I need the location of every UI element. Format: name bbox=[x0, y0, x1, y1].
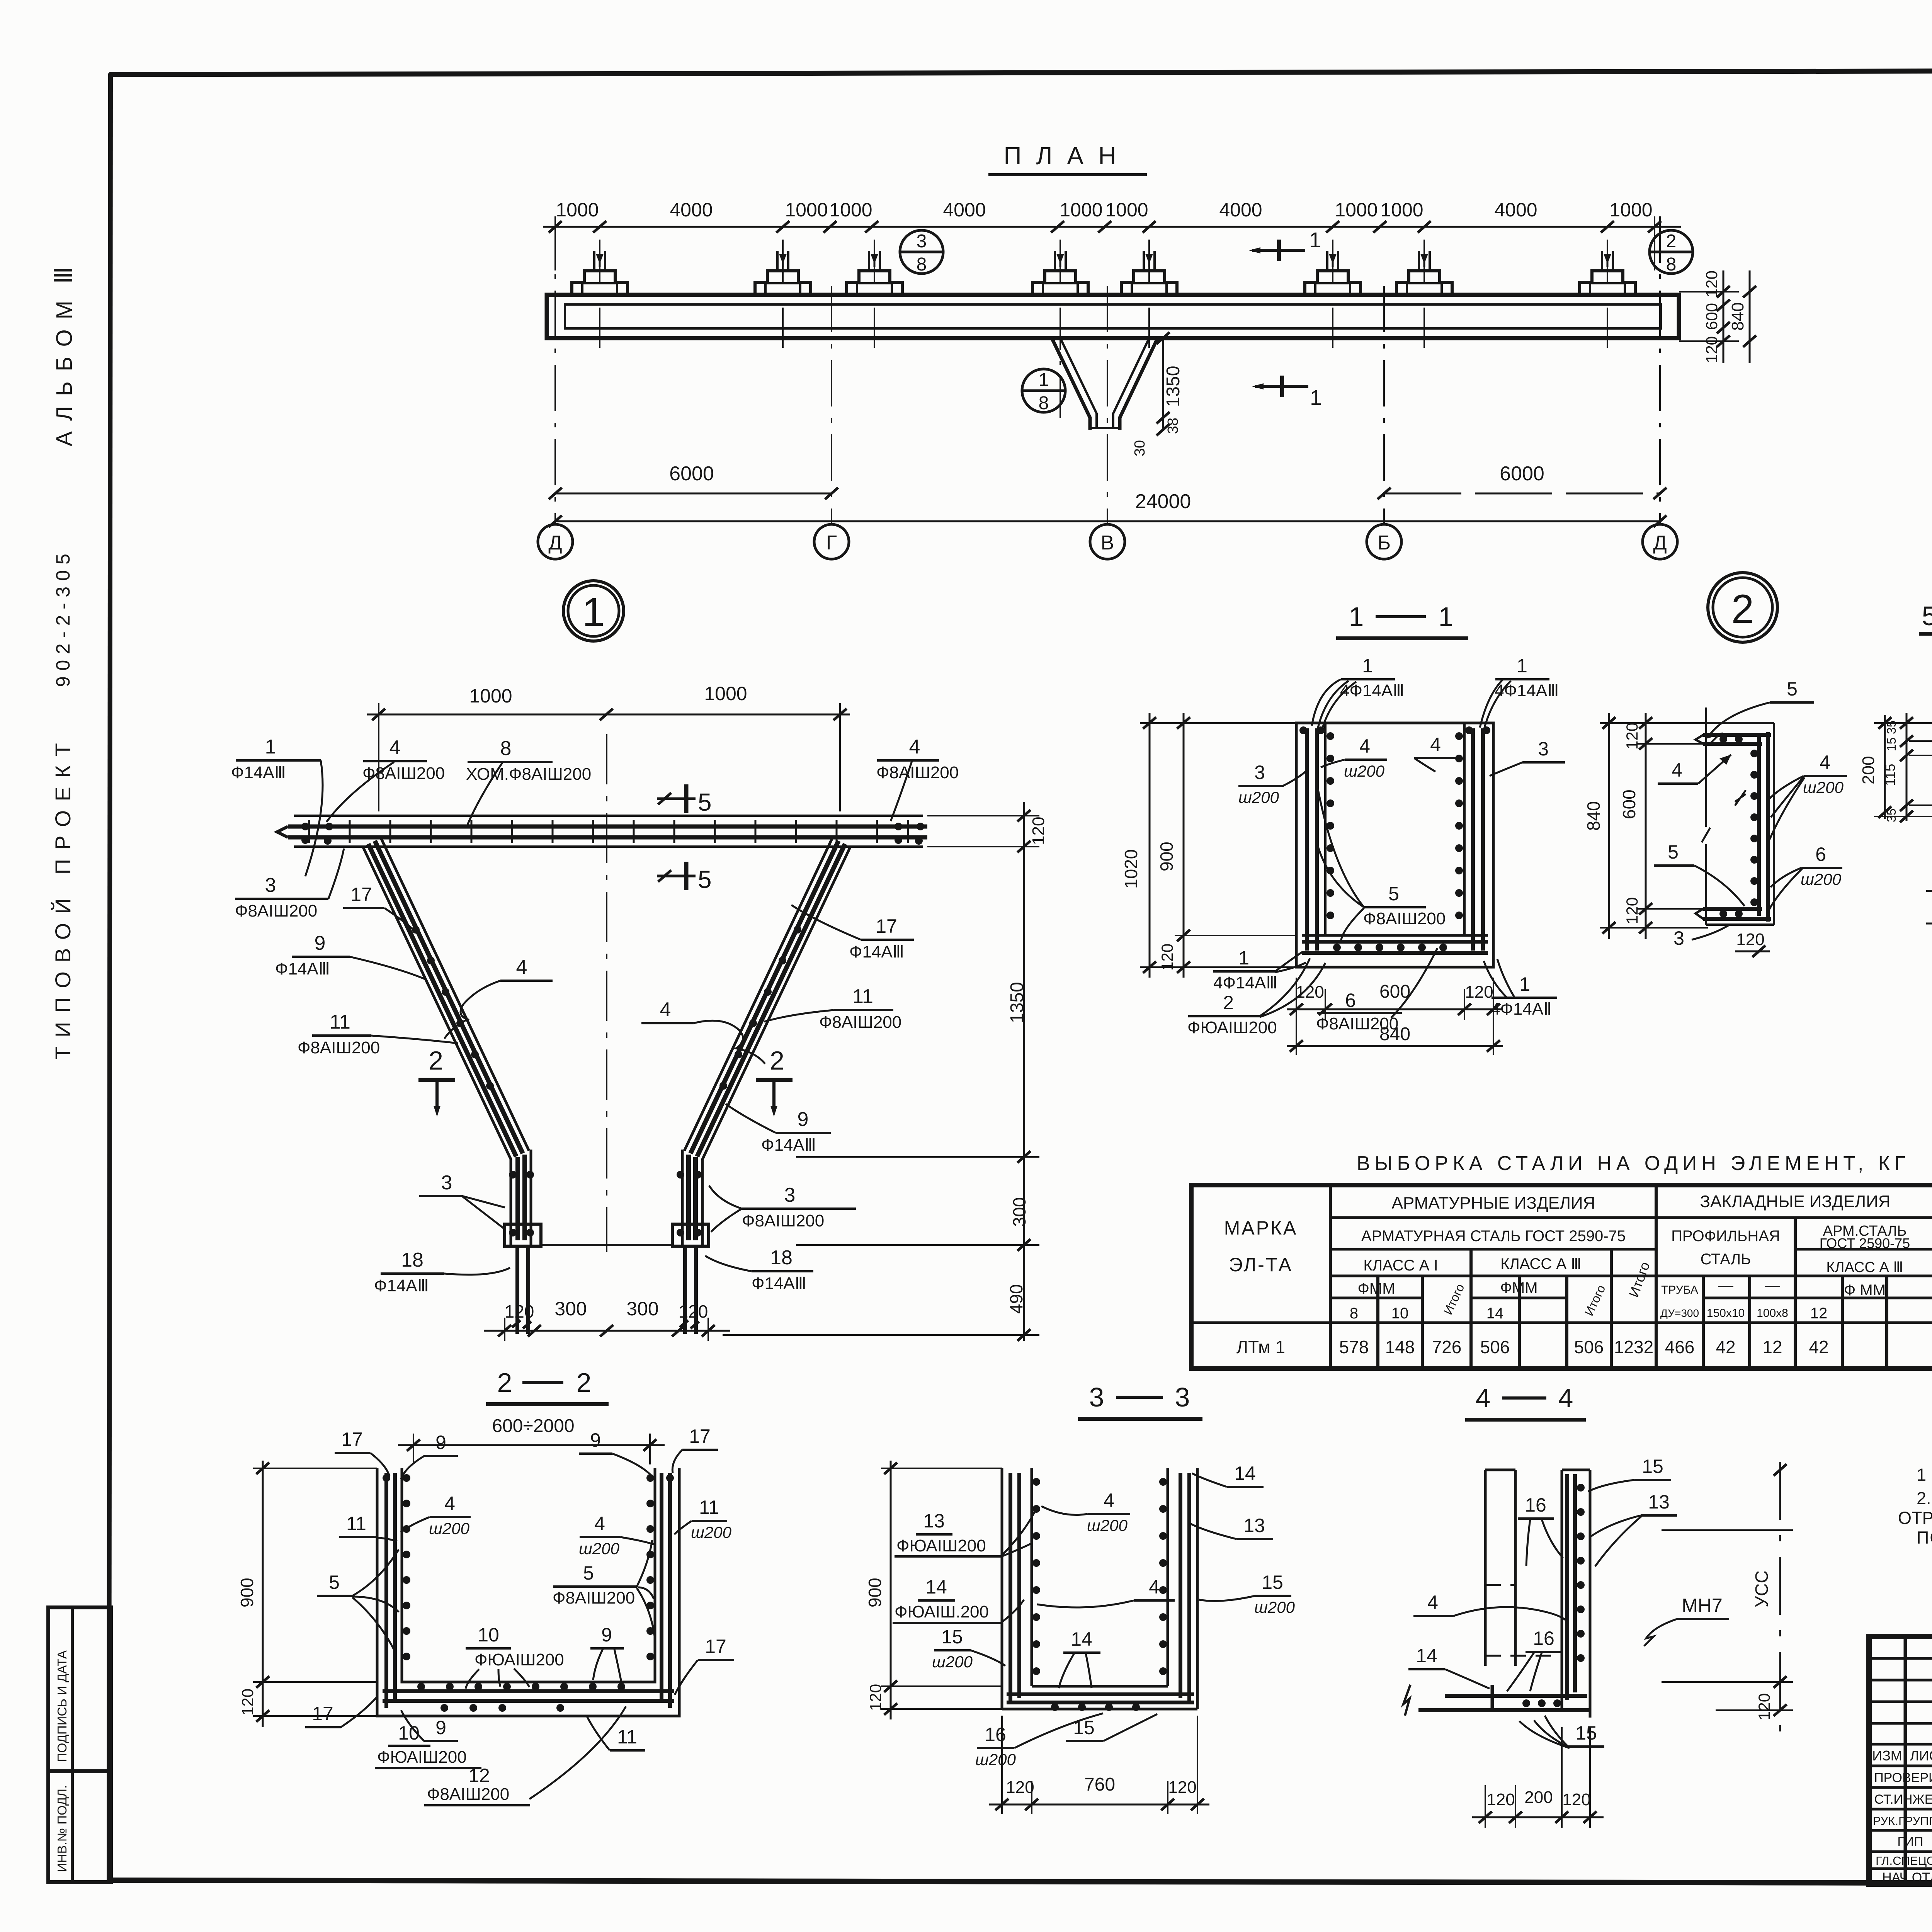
svg-text:24000: 24000 bbox=[1135, 490, 1191, 513]
label 4 mid right bbox=[641, 998, 765, 1064]
svg-text:УСС: УСС bbox=[1752, 1570, 1772, 1607]
svg-text:15: 15 bbox=[1575, 1722, 1597, 1744]
svg-text:2. АРМАТУРА ПОЗ. 1,2,5 ЗАКАЗ: 2. АРМАТУРА ПОЗ. 1,2,5 ЗАКАЗАНА ОБЩЕЙ ДЛ… bbox=[1917, 1488, 1932, 1508]
svg-text:4Ф14АⅢ: 4Ф14АⅢ bbox=[1495, 681, 1559, 700]
svg-text:100х8: 100х8 bbox=[1757, 1307, 1788, 1320]
svg-text:300: 300 bbox=[554, 1298, 587, 1320]
section 1-1 label 3 right bbox=[1490, 738, 1565, 776]
svg-text:12: 12 bbox=[1810, 1305, 1828, 1322]
section 1 left sloped leg bbox=[363, 838, 541, 1246]
svg-text:120: 120 bbox=[1755, 1693, 1773, 1720]
svg-text:4: 4 bbox=[516, 956, 527, 978]
svg-text:120: 120 bbox=[1486, 1790, 1515, 1809]
svg-text:14: 14 bbox=[1234, 1463, 1256, 1484]
title block left grid bbox=[1869, 1636, 1932, 1884]
svg-text:120: 120 bbox=[1623, 897, 1641, 924]
svg-text:4000: 4000 bbox=[670, 199, 713, 221]
svg-text:Ф8АIШ200: Ф8АIШ200 bbox=[298, 1038, 380, 1057]
svg-text:902-2-305: 902-2-305 bbox=[52, 554, 74, 687]
svg-text:4000: 4000 bbox=[943, 199, 986, 221]
svg-text:5: 5 bbox=[329, 1571, 340, 1593]
middle section left dims 120 600 120 840 bbox=[1583, 713, 1708, 939]
svg-text:4Ф14АⅢ: 4Ф14АⅢ bbox=[1340, 681, 1405, 700]
svg-text:МАРКА: МАРКА bbox=[1224, 1217, 1298, 1239]
svg-text:300: 300 bbox=[1009, 1197, 1029, 1227]
section 1-1 label 6 F8AIsh200 bbox=[1316, 948, 1437, 1033]
svg-text:2: 2 bbox=[770, 1046, 784, 1075]
column bubble G bbox=[814, 524, 849, 559]
svg-text:Ⅲ: Ⅲ bbox=[49, 266, 78, 284]
section 1 bottom slab line between feet bbox=[541, 1244, 672, 1246]
svg-text:35: 35 bbox=[1884, 808, 1898, 822]
column bubble V bbox=[1090, 524, 1125, 559]
svg-text:1000: 1000 bbox=[704, 683, 747, 704]
svg-text:490: 490 bbox=[1006, 1284, 1026, 1314]
plan lower dim 6000 left bbox=[549, 463, 838, 499]
svg-text:13: 13 bbox=[923, 1510, 945, 1532]
svg-text:ФЮАIШ200: ФЮАIШ200 bbox=[896, 1536, 986, 1555]
svg-text:4: 4 bbox=[1430, 734, 1441, 755]
svg-text:Ф ММ: Ф ММ bbox=[1844, 1282, 1886, 1299]
svg-text:ЛИСТ: ЛИСТ bbox=[1910, 1748, 1932, 1764]
svg-text:ФЮАIШ.200: ФЮАIШ.200 bbox=[895, 1602, 989, 1621]
svg-text:9: 9 bbox=[798, 1108, 809, 1131]
svg-text:8: 8 bbox=[500, 737, 512, 760]
section 1 centerline bbox=[606, 734, 607, 1252]
svg-text:6000: 6000 bbox=[1500, 463, 1544, 485]
svg-text:11: 11 bbox=[699, 1497, 719, 1518]
svg-text:1: 1 bbox=[1362, 655, 1373, 677]
svg-text:1: 1 bbox=[1310, 385, 1322, 410]
svg-text:5: 5 bbox=[1668, 841, 1679, 863]
svg-text:4: 4 bbox=[1149, 1576, 1160, 1598]
svg-text:3: 3 bbox=[1254, 762, 1265, 783]
svg-text:15: 15 bbox=[1073, 1717, 1095, 1738]
svg-text:Ф8АIШ200: Ф8АIШ200 bbox=[876, 763, 959, 782]
svg-text:КЛАСС А Ⅲ: КЛАСС А Ⅲ bbox=[1826, 1259, 1903, 1276]
svg-text:ФММ: ФММ bbox=[1500, 1279, 1537, 1296]
svg-text:8: 8 bbox=[1039, 393, 1049, 413]
section 1-1 drawing bbox=[1296, 723, 1493, 967]
svg-text:ТИПОВОЙ ПРОЕКТ: ТИПОВОЙ ПРОЕКТ bbox=[51, 741, 75, 1060]
svg-text:1000: 1000 bbox=[1609, 199, 1652, 221]
svg-text:3: 3 bbox=[784, 1184, 796, 1206]
steel table grid bbox=[1191, 1185, 1932, 1369]
svg-text:10: 10 bbox=[398, 1722, 420, 1744]
svg-text:9: 9 bbox=[590, 1429, 601, 1451]
svg-text:120: 120 bbox=[238, 1689, 257, 1716]
heading 2-2 bbox=[486, 1367, 609, 1404]
svg-text:8: 8 bbox=[1350, 1305, 1358, 1322]
svg-text:2: 2 bbox=[1223, 992, 1234, 1014]
svg-text:120: 120 bbox=[1562, 1790, 1590, 1809]
svg-text:11: 11 bbox=[346, 1513, 366, 1534]
svg-text:120: 120 bbox=[505, 1301, 534, 1321]
svg-text:150х10: 150х10 bbox=[1707, 1307, 1745, 1320]
svg-text:840: 840 bbox=[1728, 302, 1747, 330]
plan title bbox=[988, 142, 1147, 175]
svg-text:5: 5 bbox=[1388, 883, 1399, 905]
svg-text:8: 8 bbox=[917, 254, 927, 275]
svg-text:15: 15 bbox=[1642, 1456, 1663, 1477]
svg-text:ФММ: ФММ bbox=[1357, 1280, 1395, 1297]
section 1-1 label 4 sh200 left bbox=[1321, 735, 1387, 780]
svg-text:Ф14АⅢ: Ф14АⅢ bbox=[374, 1276, 429, 1295]
plan beam body bbox=[547, 295, 1679, 338]
svg-text:17: 17 bbox=[689, 1425, 711, 1447]
svg-text:9: 9 bbox=[315, 932, 326, 954]
svg-text:14: 14 bbox=[925, 1576, 947, 1598]
svg-text:600: 600 bbox=[1702, 303, 1721, 330]
svg-text:14: 14 bbox=[1416, 1645, 1437, 1667]
svg-text:4: 4 bbox=[1104, 1490, 1114, 1511]
section 4-4 right dim line USS 120 bbox=[1662, 1462, 1793, 1743]
svg-text:15: 15 bbox=[1884, 737, 1898, 751]
section 2-2 labels top bbox=[335, 1429, 389, 1476]
svg-text:1000: 1000 bbox=[1060, 199, 1102, 221]
middle section label 5 top bbox=[1708, 678, 1814, 745]
svg-text:РУК.ГРУППЫ: РУК.ГРУППЫ bbox=[1873, 1814, 1932, 1828]
svg-text:СТАЛЬ: СТАЛЬ bbox=[1701, 1251, 1751, 1268]
svg-text:КЛАСС А Ⅲ: КЛАСС А Ⅲ bbox=[1500, 1255, 1582, 1272]
middle section label 6 sh200 right bbox=[1769, 844, 1842, 909]
svg-text:2: 2 bbox=[497, 1367, 512, 1398]
svg-text:120: 120 bbox=[1702, 336, 1721, 363]
svg-text:1000: 1000 bbox=[829, 199, 872, 221]
section 4-4 drawing bbox=[1403, 1470, 1590, 1718]
svg-text:Б: Б bbox=[1378, 532, 1391, 554]
svg-text:4: 4 bbox=[594, 1513, 605, 1534]
cut mark 2 right bbox=[756, 1046, 793, 1117]
svg-text:ш200: ш200 bbox=[1238, 788, 1279, 806]
middle section bottom dim 120 bbox=[1735, 930, 1770, 957]
svg-text:17: 17 bbox=[876, 915, 897, 937]
svg-text:Г: Г bbox=[826, 532, 837, 554]
svg-text:3: 3 bbox=[1538, 738, 1549, 760]
section 3-3 bottom dim 120 760 120 bbox=[989, 1716, 1209, 1814]
svg-text:4000: 4000 bbox=[1494, 199, 1537, 221]
svg-text:ПОЗ.5; 350ММ ДЛЯ ПОЗ 2; 49: ПОЗ.5; 350ММ ДЛЯ ПОЗ 2; 490ММ ДЛЯ ПОЗ.1. bbox=[1917, 1528, 1932, 1548]
label 3 lower left bbox=[419, 1172, 505, 1229]
label 11 F8AIsh200 left bbox=[298, 1011, 458, 1057]
svg-text:Ф8АIШ200: Ф8АIШ200 bbox=[553, 1588, 635, 1607]
svg-text:АРМАТУРНЫЕ ИЗДЕЛИЯ: АРМАТУРНЫЕ ИЗДЕЛИЯ bbox=[1392, 1194, 1595, 1213]
svg-text:6: 6 bbox=[1345, 990, 1356, 1011]
svg-text:5: 5 bbox=[698, 788, 712, 816]
svg-text:15: 15 bbox=[1262, 1571, 1283, 1593]
svg-text:16: 16 bbox=[1533, 1628, 1554, 1649]
label 4 F8AIsh200 top left bbox=[327, 736, 445, 822]
section 4-4 labels bbox=[1588, 1456, 1671, 1492]
svg-text:17: 17 bbox=[312, 1703, 333, 1725]
section 1 top slab bbox=[277, 816, 927, 847]
svg-text:ИЗМ: ИЗМ bbox=[1872, 1748, 1902, 1764]
svg-text:200: 200 bbox=[1524, 1788, 1553, 1807]
circled mark 2/8 bbox=[1650, 230, 1693, 275]
svg-text:В: В bbox=[1101, 532, 1114, 554]
label 1 F14AIII top left bbox=[231, 736, 323, 876]
svg-text:9: 9 bbox=[435, 1717, 446, 1738]
svg-text:840: 840 bbox=[1583, 801, 1604, 831]
svg-text:6: 6 bbox=[1815, 844, 1826, 865]
svg-text:15: 15 bbox=[941, 1626, 963, 1648]
svg-text:5: 5 bbox=[698, 866, 712, 893]
svg-text:200: 200 bbox=[1859, 756, 1878, 784]
section 1 outlet pipes bbox=[512, 1246, 699, 1334]
middle section label 4 left arrow bbox=[1658, 755, 1731, 784]
svg-text:506: 506 bbox=[1480, 1337, 1510, 1357]
label 11 F8AIsh200 right bbox=[764, 985, 901, 1032]
svg-text:4: 4 bbox=[909, 736, 920, 758]
svg-text:148: 148 bbox=[1385, 1337, 1415, 1357]
label 4 F8AIsh200 top right bbox=[876, 736, 959, 821]
section 1 top dim 1000 1000 bbox=[367, 683, 850, 811]
svg-text:ПЛАН: ПЛАН bbox=[1004, 142, 1131, 170]
svg-text:506: 506 bbox=[1574, 1337, 1604, 1357]
steel table header texts bbox=[1224, 1192, 1932, 1322]
svg-text:Ф14АⅢ: Ф14АⅢ bbox=[761, 1136, 816, 1155]
section 2-2 top dim 600-2000 bbox=[398, 1416, 665, 1464]
svg-text:ИНВ.№ ПОДЛ.: ИНВ.№ ПОДЛ. bbox=[55, 1785, 69, 1872]
svg-text:726: 726 bbox=[1432, 1337, 1462, 1357]
svg-text:Ф8АIШ200: Ф8АIШ200 bbox=[742, 1211, 824, 1230]
section 1-1 label 1 4F14AIII top left bbox=[1312, 655, 1405, 732]
svg-text:3: 3 bbox=[917, 231, 927, 252]
svg-text:18: 18 bbox=[401, 1249, 423, 1271]
svg-text:Ф8АIШ200: Ф8АIШ200 bbox=[235, 901, 317, 920]
svg-text:—: — bbox=[1765, 1277, 1780, 1294]
plan top dimension line bbox=[543, 199, 1681, 270]
svg-text:3: 3 bbox=[1673, 927, 1684, 949]
svg-text:12: 12 bbox=[468, 1765, 490, 1786]
svg-text:600: 600 bbox=[1619, 789, 1639, 819]
svg-text:1000: 1000 bbox=[469, 685, 512, 707]
cut mark 5 upper bbox=[657, 784, 712, 816]
svg-text:5: 5 bbox=[1922, 601, 1932, 631]
svg-text:ш200: ш200 bbox=[429, 1519, 470, 1537]
svg-text:17: 17 bbox=[341, 1429, 363, 1450]
label 17 F14AIII right bbox=[791, 905, 914, 961]
svg-text:ш200: ш200 bbox=[975, 1750, 1016, 1769]
section 1-1 label 3 sh200 left bbox=[1238, 762, 1307, 806]
svg-text:9: 9 bbox=[601, 1624, 612, 1646]
svg-text:Д: Д bbox=[548, 532, 562, 554]
svg-text:ПРОФИЛЬНАЯ: ПРОФИЛЬНАЯ bbox=[1671, 1228, 1780, 1245]
svg-text:12: 12 bbox=[1762, 1337, 1782, 1357]
svg-text:КЛАСС А I: КЛАСС А I bbox=[1363, 1257, 1438, 1274]
svg-text:5: 5 bbox=[583, 1562, 594, 1584]
svg-text:1000: 1000 bbox=[1380, 199, 1423, 221]
svg-text:ГИП: ГИП bbox=[1897, 1835, 1923, 1849]
section 1-1 label 1 4F14AIII bottom left bbox=[1213, 947, 1306, 992]
svg-text:4: 4 bbox=[1820, 752, 1830, 773]
svg-text:Ф14АⅢ: Ф14АⅢ bbox=[231, 763, 286, 782]
svg-text:2: 2 bbox=[429, 1046, 443, 1075]
svg-text:ш200: ш200 bbox=[691, 1523, 732, 1541]
svg-text:1: 1 bbox=[1519, 973, 1530, 995]
svg-text:900: 900 bbox=[1156, 842, 1177, 871]
svg-text:ФЮАIШ200: ФЮАIШ200 bbox=[1187, 1018, 1277, 1037]
svg-text:578: 578 bbox=[1339, 1337, 1369, 1357]
label 18 F14AIII right bbox=[705, 1247, 813, 1293]
svg-text:1232: 1232 bbox=[1614, 1337, 1653, 1357]
svg-text:СТ.ИНЖЕН.: СТ.ИНЖЕН. bbox=[1874, 1792, 1932, 1807]
svg-text:ОТРЕЗКОВ ВНАХЛЕСТКУ ДЛИНА: ОТРЕЗКОВ ВНАХЛЕСТКУ ДЛИНА ПЕРЕПУСКА ДОЛЖ… bbox=[1898, 1508, 1932, 1528]
circled mark 1/8 bbox=[1022, 369, 1065, 413]
svg-text:10: 10 bbox=[478, 1624, 499, 1646]
svg-text:1000: 1000 bbox=[785, 199, 828, 221]
svg-text:1: 1 bbox=[582, 590, 605, 635]
section 1 right dims 120 1350 300 490 bbox=[723, 802, 1048, 1341]
middle section label 3 bottom bbox=[1673, 924, 1730, 949]
plan lower dim 24000 bbox=[549, 490, 1667, 527]
column bubble B bbox=[1367, 524, 1401, 559]
svg-text:ЗАКЛАДНЫЕ ИЗДЕЛИЯ: ЗАКЛАДНЫЕ ИЗДЕЛИЯ bbox=[1700, 1192, 1891, 1211]
svg-text:3: 3 bbox=[1089, 1382, 1104, 1412]
svg-text:ш200: ш200 bbox=[1803, 778, 1844, 796]
svg-text:Ф8АIШ200: Ф8АIШ200 bbox=[362, 764, 445, 783]
svg-text:115: 115 bbox=[1882, 764, 1898, 786]
svg-text:30: 30 bbox=[1132, 440, 1148, 456]
svg-text:1: 1 bbox=[1238, 947, 1249, 969]
svg-text:ФЮАIШ200: ФЮАIШ200 bbox=[377, 1748, 467, 1767]
svg-text:1: 1 bbox=[1517, 655, 1527, 677]
label 3 F8AIsh200 lower right bbox=[709, 1184, 856, 1232]
svg-text:ш200: ш200 bbox=[932, 1653, 973, 1671]
label 3 F8AIsh200 left bbox=[235, 849, 344, 920]
svg-text:Ф8АIШ200: Ф8АIШ200 bbox=[427, 1785, 509, 1804]
section 5-5 left dims 200 35 15 115 35 bbox=[1859, 713, 1932, 822]
svg-text:3: 3 bbox=[441, 1172, 452, 1194]
svg-text:4: 4 bbox=[1359, 735, 1370, 757]
svg-text:900: 900 bbox=[865, 1578, 885, 1607]
svg-text:18: 18 bbox=[770, 1247, 793, 1269]
svg-text:760: 760 bbox=[1084, 1774, 1115, 1795]
svg-text:1350: 1350 bbox=[1163, 366, 1184, 407]
svg-text:1: 1 bbox=[265, 736, 276, 758]
svg-text:1350: 1350 bbox=[1007, 982, 1027, 1023]
svg-text:4: 4 bbox=[1476, 1383, 1491, 1413]
left bottom stamp boxes bbox=[48, 1607, 111, 1882]
svg-text:ЛТм 1: ЛТм 1 bbox=[1236, 1337, 1285, 1357]
svg-text:Ф8АIШ200: Ф8АIШ200 bbox=[819, 1013, 901, 1032]
middle section label 4 sh200 right bbox=[1769, 752, 1847, 839]
svg-text:600÷2000: 600÷2000 bbox=[492, 1416, 574, 1436]
circled mark 3/8 bbox=[900, 230, 943, 275]
svg-text:ш200: ш200 bbox=[1344, 762, 1385, 780]
notes text bbox=[1898, 1465, 1932, 1548]
svg-text:4: 4 bbox=[1558, 1383, 1573, 1413]
svg-text:466: 466 bbox=[1665, 1337, 1695, 1357]
section 1-1 label 5 F8AIsh200 bbox=[1318, 787, 1446, 943]
svg-text:ш200: ш200 bbox=[579, 1539, 620, 1558]
section 1 bottom dims 120 300 300 120 bbox=[484, 1298, 730, 1341]
svg-text:Д: Д bbox=[1653, 532, 1667, 554]
column bubble D left bbox=[538, 524, 573, 559]
label 9 F14AIII left bbox=[275, 932, 427, 980]
svg-text:ТРУБА: ТРУБА bbox=[1661, 1284, 1698, 1296]
svg-text:Ф8АIШ200: Ф8АIШ200 bbox=[1316, 1014, 1398, 1033]
svg-text:13: 13 bbox=[1648, 1491, 1670, 1513]
svg-text:120: 120 bbox=[679, 1301, 708, 1321]
plan pedestals bbox=[572, 251, 1635, 295]
svg-text:АРМАТУРНАЯ СТАЛЬ ГОСТ 2590-75: АРМАТУРНАЯ СТАЛЬ ГОСТ 2590-75 bbox=[1361, 1228, 1626, 1245]
svg-text:ш200: ш200 bbox=[1254, 1598, 1295, 1616]
svg-text:900: 900 bbox=[237, 1578, 257, 1607]
svg-text:1000: 1000 bbox=[556, 199, 599, 221]
title block outer bbox=[1869, 1636, 1932, 1884]
svg-text:5: 5 bbox=[1787, 678, 1798, 700]
svg-text:120: 120 bbox=[1029, 817, 1048, 845]
svg-text:4000: 4000 bbox=[1219, 199, 1262, 221]
svg-text:17: 17 bbox=[705, 1636, 726, 1657]
svg-text:ФЮАIШ200: ФЮАIШ200 bbox=[474, 1650, 564, 1669]
svg-text:120: 120 bbox=[866, 1684, 884, 1711]
circled section number 2 bbox=[1708, 573, 1777, 642]
svg-text:14: 14 bbox=[1071, 1628, 1092, 1650]
svg-text:ЭЛ-ТА: ЭЛ-ТА bbox=[1229, 1254, 1293, 1276]
svg-text:1: 1 bbox=[1309, 228, 1321, 252]
section 1-1 label 2 F10AIsh200 bbox=[1187, 958, 1325, 1037]
svg-text:11: 11 bbox=[617, 1726, 637, 1748]
svg-text:ш200: ш200 bbox=[1087, 1516, 1128, 1534]
column bubble D right bbox=[1643, 524, 1677, 559]
left margin vertical text ALBOM III bbox=[49, 266, 78, 446]
svg-text:120: 120 bbox=[1702, 270, 1721, 298]
svg-text:42: 42 bbox=[1716, 1337, 1735, 1357]
svg-text:3: 3 bbox=[265, 874, 276, 896]
svg-text:300: 300 bbox=[626, 1298, 658, 1320]
label 8 HOM F8AIsh200 bbox=[466, 737, 591, 825]
svg-text:2: 2 bbox=[577, 1367, 592, 1398]
label 9 F14AIII right bbox=[726, 1104, 831, 1155]
svg-text:16: 16 bbox=[1525, 1494, 1546, 1516]
svg-text:МН7: МН7 bbox=[1682, 1595, 1723, 1616]
funnel dimension 1350 bbox=[1132, 332, 1184, 456]
label 18 F14AIII left bbox=[374, 1249, 510, 1295]
svg-text:2: 2 bbox=[1731, 587, 1754, 632]
svg-text:42: 42 bbox=[1809, 1337, 1828, 1357]
svg-text:Ф8АIШ200: Ф8АIШ200 bbox=[1363, 909, 1446, 928]
section 1 right sloped leg bbox=[672, 838, 850, 1246]
title block header row bbox=[1872, 1748, 1932, 1764]
svg-text:10: 10 bbox=[1391, 1305, 1409, 1322]
svg-text:3: 3 bbox=[1175, 1382, 1190, 1412]
middle section label 5 left lower bbox=[1654, 841, 1745, 906]
svg-text:13: 13 bbox=[1243, 1515, 1265, 1536]
section 4-4 bottom dim 120 200 120 bbox=[1472, 1727, 1604, 1828]
svg-text:ПРОВЕРИЛ: ПРОВЕРИЛ bbox=[1874, 1770, 1932, 1785]
label 4 mid left bbox=[444, 956, 553, 1039]
svg-text:6000: 6000 bbox=[669, 463, 714, 485]
title block signature rows bbox=[1873, 1769, 1932, 1885]
svg-text:38: 38 bbox=[1165, 418, 1181, 434]
svg-text:4Ф14АⅡ: 4Ф14АⅡ bbox=[1491, 1000, 1552, 1019]
cut mark 2 left bbox=[418, 1046, 455, 1117]
section 5-5 bottom dims 35 50 35 120 bbox=[1926, 816, 1932, 932]
svg-text:НАЧ.ОТД: НАЧ.ОТД bbox=[1882, 1870, 1932, 1885]
svg-text:120: 120 bbox=[1736, 930, 1764, 949]
svg-text:1000: 1000 bbox=[1105, 199, 1148, 221]
svg-text:1: 1 bbox=[1439, 602, 1454, 632]
column axis lines bbox=[555, 216, 1660, 524]
svg-text:1000: 1000 bbox=[1335, 199, 1378, 221]
section 2-2 left dim 900 120 bbox=[237, 1461, 377, 1727]
svg-text:—: — bbox=[1718, 1277, 1733, 1294]
svg-text:Ф14АⅢ: Ф14АⅢ bbox=[275, 959, 330, 978]
svg-text:ДУ=300: ДУ=300 bbox=[1660, 1307, 1699, 1319]
svg-text:2: 2 bbox=[1666, 231, 1677, 252]
